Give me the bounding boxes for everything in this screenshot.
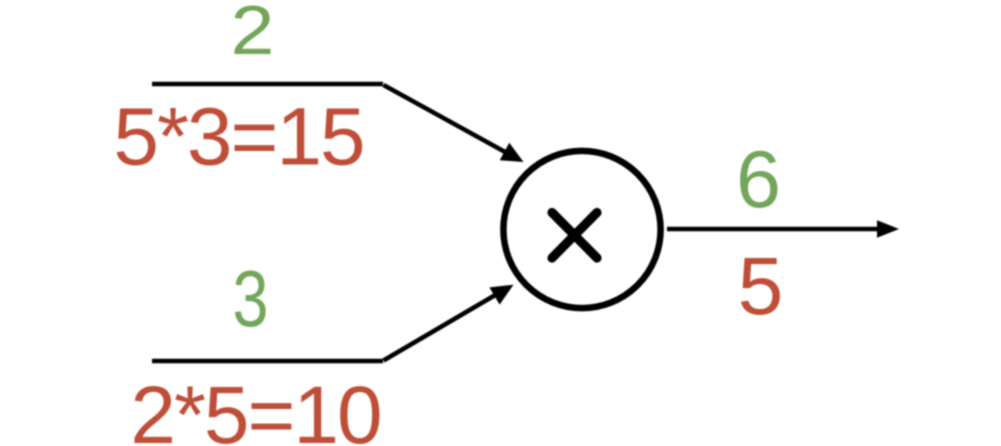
svg-text:2*5=10: 2*5=10 [130, 370, 380, 446]
svg-text:5*3=15: 5*3=15 [113, 92, 363, 183]
svg-text:5: 5 [738, 241, 784, 332]
svg-text:3: 3 [233, 254, 269, 343]
svg-text:2: 2 [231, 0, 275, 69]
svg-text:6: 6 [736, 135, 781, 225]
